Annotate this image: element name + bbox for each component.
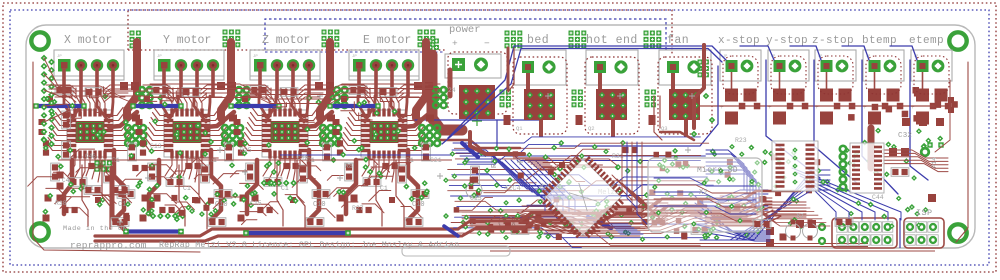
svg-text:JP: JP <box>157 55 162 59</box>
U4 thermal ring grid <box>419 125 425 131</box>
wire aux fat <box>702 45 706 58</box>
IC U1 stepper driver <box>67 110 113 157</box>
Z motor pad 3 <box>287 59 299 71</box>
U4 bottom fanout <box>362 157 369 176</box>
fan pad sq <box>667 61 679 73</box>
U4 connector feed wires <box>358 96 365 117</box>
U1 heavy snake <box>114 150 124 220</box>
E region vias <box>391 108 397 114</box>
capacitors Y top <box>152 86 170 95</box>
U2 thermal ring grid <box>222 125 228 131</box>
left band extra wires <box>46 85 76 90</box>
IC U4 stepper driver <box>361 110 407 157</box>
E motor pad 2 <box>370 59 382 71</box>
passive left of X7 <box>753 220 771 229</box>
bottom strip blue diagonals to header <box>700 190 830 240</box>
Z region wires <box>240 183 264 189</box>
U2 connector feed wires <box>161 96 168 117</box>
svg-text:ISP: ISP <box>916 208 933 218</box>
via block bed <box>505 31 510 36</box>
top-right passives <box>872 104 879 111</box>
wire blue segment 1 <box>126 229 181 233</box>
IC U6 right (pins) <box>772 141 818 191</box>
svg-text:+: + <box>863 104 867 111</box>
svg-text:+: + <box>815 104 819 111</box>
btemp resistor pads <box>868 89 881 102</box>
z-stop pad sq <box>821 60 833 72</box>
btemp pad sq <box>869 60 881 72</box>
svg-text:C44: C44 <box>872 194 884 201</box>
fan wires <box>671 73 675 89</box>
svg-text:RepRap Melzi V2.0 Licence: GP: RepRap Melzi V2.0 Licence: GPL Design: J… <box>159 240 459 250</box>
wire central heavy bus B <box>462 206 706 236</box>
U1 connector feed wires <box>64 96 71 117</box>
U5 escape wires <box>540 169 556 171</box>
svg-text:+: + <box>452 38 458 49</box>
wire blue stop nets <box>448 46 726 138</box>
fat blue diagonal segs <box>462 143 478 157</box>
x-stop resistor pads <box>725 89 738 102</box>
central red fill bundle <box>522 200 702 212</box>
hot end wires <box>598 73 602 89</box>
connector z-stop <box>815 50 856 81</box>
right header fan-in (blue) <box>812 188 836 220</box>
btemp pad round <box>884 60 897 73</box>
z-stop resistor pads <box>820 89 833 102</box>
svg-text:R23: R23 <box>735 137 747 144</box>
U1 bottom fanout <box>68 157 75 176</box>
fan gate via block <box>645 90 650 95</box>
U3 fanout wires <box>252 108 267 116</box>
svg-text:X7: X7 <box>796 213 804 220</box>
via row bottom-left 2 <box>261 180 268 187</box>
right extra wires <box>720 196 810 208</box>
U2 bottom fanout <box>165 157 172 176</box>
Z motor pad 1 (square) <box>254 59 267 72</box>
bottom edge connector outline <box>402 246 510 256</box>
connector X7 crystal <box>786 224 801 239</box>
via block E <box>418 30 423 35</box>
x-stop pad sq <box>726 60 738 72</box>
Y motor pad 1 (square) <box>158 59 171 72</box>
etemp pad round <box>932 60 945 73</box>
svg-text:−: − <box>484 38 490 49</box>
z-stop wire down <box>826 72 828 92</box>
svg-text:X motor: X motor <box>64 34 112 47</box>
U3 supply wire (blue) <box>229 104 279 108</box>
X region vias <box>69 103 75 109</box>
U1 supply wire (blue) <box>34 104 84 108</box>
U4 fanout wires <box>351 108 366 116</box>
svg-text:JP: JP <box>253 55 258 59</box>
right mesh wires <box>706 150 744 190</box>
connector fan terminal <box>659 50 711 85</box>
connector bed terminal <box>514 50 566 85</box>
svg-text:R38: R38 <box>55 200 67 207</box>
Y region vias <box>162 101 168 107</box>
etemp resistor pads <box>916 89 929 102</box>
via block hotend <box>569 31 574 36</box>
svg-text:C4: C4 <box>62 177 70 184</box>
left edge wires <box>44 58 70 92</box>
bottom strip mid extra <box>470 218 640 224</box>
via ring column right <box>840 146 846 152</box>
E motor pad 4 <box>402 59 414 71</box>
U2 fanout wires <box>154 108 169 116</box>
power pad - <box>474 58 488 72</box>
capacitor C5 power (big pad) <box>459 85 495 119</box>
svg-text:+: + <box>911 104 915 111</box>
via block Y <box>223 30 228 35</box>
bed pad sq <box>522 61 534 73</box>
bed wires <box>526 73 530 89</box>
connector x-stop <box>720 50 761 81</box>
E motor pad 1 (square) <box>353 59 366 72</box>
top-right pad rows <box>902 118 910 126</box>
svg-text:E motor: E motor <box>363 34 411 47</box>
aux corridor vias <box>691 131 698 138</box>
hot end keepout dotted <box>585 57 639 134</box>
top-right wires <box>935 80 950 152</box>
Y region wires <box>170 171 185 178</box>
svg-text:power: power <box>449 24 481 36</box>
svg-text:Z motor: Z motor <box>262 34 310 47</box>
y-stop keepout dotted <box>771 56 806 94</box>
connector X motor (4-pin) <box>54 50 124 80</box>
bed keepout dotted <box>513 57 567 134</box>
Y motor wires down <box>162 68 166 98</box>
passives E cluster <box>345 163 354 181</box>
X region wires <box>71 149 95 158</box>
power region wires <box>415 119 540 121</box>
right extra vias <box>712 151 718 157</box>
connector E motor (4-pin) <box>349 50 419 80</box>
connector header (2x3) <box>904 218 944 248</box>
X motor pad 4 <box>107 59 119 71</box>
U1 thermal ring grid <box>125 125 131 131</box>
wire Y feed (fat) <box>221 42 231 118</box>
svg-text:X2: X2 <box>699 189 708 197</box>
wire left edge vertical <box>33 62 200 252</box>
wire bottom thin traces <box>205 243 868 245</box>
gray plus marks <box>145 175 151 181</box>
svg-text:C32: C32 <box>898 132 912 140</box>
IC U7 right upper (pins) <box>850 143 884 193</box>
Micro SD inner traces <box>654 178 756 186</box>
left bottom extra pads <box>179 210 185 216</box>
mesh horizontal nets <box>453 137 700 143</box>
svg-text:Q2: Q2 <box>588 125 595 132</box>
etemp keepout dotted <box>914 56 949 94</box>
crystal circles mid <box>499 215 513 229</box>
hot end pad sq <box>594 61 606 73</box>
E motor pad 3 <box>386 59 398 71</box>
svg-text:+: + <box>768 104 772 111</box>
E motor wires down <box>357 68 361 98</box>
X motor pad 2 <box>75 59 87 71</box>
right fat vertical <box>868 128 875 168</box>
connector Y motor (4-pin) <box>154 50 224 80</box>
svg-text:JP: JP <box>352 55 357 59</box>
y-stop wire down <box>779 72 781 92</box>
svg-text:reprappro.com: reprappro.com <box>70 240 147 251</box>
wire bus bottom 2 <box>280 154 452 156</box>
passives Y cluster <box>148 163 157 181</box>
svg-text:etemp: etemp <box>909 35 944 47</box>
svg-text:C18: C18 <box>297 155 309 162</box>
wire Z feed (fat) <box>320 42 330 118</box>
central mesh extra diagonal <box>452 150 565 186</box>
capacitors Z top <box>250 86 268 95</box>
power cap outlet fat <box>470 132 524 154</box>
wire fat snake X <box>112 168 126 231</box>
wire bottom bus fat lower <box>95 236 460 241</box>
U3 heavy snake <box>309 150 319 220</box>
X motor pad 3 <box>91 59 103 71</box>
connector Z motor (4-pin) <box>250 50 320 80</box>
mounting hole bottom-left <box>31 223 48 240</box>
power fat wire <box>432 55 462 130</box>
Z region vias <box>266 180 272 186</box>
transistor Q3 fan <box>669 89 700 120</box>
svg-text:Q1: Q1 <box>516 125 523 132</box>
svg-text:y-stop: y-stop <box>766 35 808 47</box>
capacitors E top <box>349 86 367 95</box>
passives Z cluster <box>246 163 255 181</box>
svg-text:C13: C13 <box>150 143 162 150</box>
mounting hole top-left <box>31 32 48 49</box>
mounting hole top-right <box>949 32 966 49</box>
etemp wire down <box>922 72 924 92</box>
svg-text:hot end: hot end <box>586 34 638 47</box>
blue diagonals lower-right <box>695 196 770 231</box>
mesh pads <box>528 221 534 227</box>
central extra pads <box>626 207 632 213</box>
U2 supply wire (blue) <box>131 104 181 108</box>
wire right heavy bus <box>706 191 800 199</box>
mesh short nets <box>477 174 507 188</box>
svg-text:Y motor: Y motor <box>163 34 211 47</box>
fan corridor verticals <box>654 96 662 140</box>
svg-text:C15: C15 <box>470 195 482 202</box>
wire right edge vertical <box>956 62 968 242</box>
svg-text:JP: JP <box>57 55 62 59</box>
via column left A <box>41 55 48 62</box>
inter-connector thin traces band <box>150 84 440 90</box>
svg-text:Micro SD: Micro SD <box>697 166 738 175</box>
svg-text:btemp: btemp <box>862 35 897 47</box>
transistor Q1 bed <box>524 89 555 120</box>
via block power L <box>428 39 433 44</box>
left edge passives <box>62 111 71 129</box>
wire bottom bus fat upper <box>95 229 458 236</box>
Y motor pad 3 <box>191 59 203 71</box>
btemp keepout dotted <box>866 56 901 94</box>
connector etemp <box>911 50 952 81</box>
svg-text:+: + <box>720 104 724 111</box>
right red fill bundle <box>712 202 806 210</box>
U4 heavy snake <box>408 150 418 220</box>
bed pad round <box>542 60 555 73</box>
U3 thermal ring grid <box>320 125 326 131</box>
Z motor pad 2 <box>271 59 283 71</box>
mesh vias <box>662 157 668 163</box>
wire stop bus <box>700 105 945 107</box>
right extra pads <box>734 204 740 210</box>
connector Micro SD holder <box>648 158 762 232</box>
SD left corridor verticals <box>622 142 632 200</box>
x-stop wire down <box>731 72 733 92</box>
wire X feed (fat) <box>127 42 137 118</box>
svg-text:x-stop: x-stop <box>718 35 760 47</box>
connector ISP header (2x5) <box>832 218 897 248</box>
U3 bottom fanout <box>263 157 270 176</box>
board outline <box>26 25 975 248</box>
bottom strip extra <box>462 208 758 220</box>
svg-text:C10: C10 <box>412 201 425 209</box>
svg-text:C21: C21 <box>430 157 442 164</box>
wire central heavy bus A <box>458 199 704 229</box>
U3 connector feed wires <box>259 96 266 117</box>
capacitors X top <box>55 86 73 95</box>
central extra vias <box>488 208 494 214</box>
wire between headers <box>899 218 901 248</box>
right vias base <box>855 200 861 206</box>
passives X cluster <box>51 163 60 181</box>
via column left B <box>48 59 55 66</box>
y-stop pad sq <box>774 60 786 72</box>
x-stop keepout dotted <box>723 56 758 94</box>
via block X <box>130 31 135 36</box>
svg-text:P14: P14 <box>931 157 938 168</box>
fan keepout dotted <box>658 57 712 134</box>
via block aux <box>698 60 703 65</box>
IC U3 stepper driver <box>262 110 308 157</box>
mesh diagonals near U5 <box>505 160 545 214</box>
hot end gate via block <box>572 90 577 95</box>
connector btemp <box>863 50 904 81</box>
connector power terminal <box>445 54 501 78</box>
wire bus bottom 1 <box>58 159 452 161</box>
btemp wire down <box>874 72 876 92</box>
svg-text:C10: C10 <box>313 201 326 209</box>
svg-text:R8: R8 <box>345 163 353 170</box>
fan pad round <box>687 60 700 73</box>
svg-text:42C4: 42C4 <box>504 185 521 193</box>
X motor pad 1 (square) <box>58 59 71 72</box>
aux green pads right <box>927 142 932 147</box>
U1 fanout wires <box>57 108 72 116</box>
connector keepout outline (red dotted) <box>128 10 672 55</box>
transistor Q2 hot end <box>596 89 627 120</box>
svg-text:C15: C15 <box>250 200 262 207</box>
svg-text:bed: bed <box>527 34 549 47</box>
svg-text:R27: R27 <box>352 205 364 212</box>
Z motor wires down <box>258 68 262 98</box>
IC U2 stepper driver <box>164 110 210 157</box>
connector keepout outline (blue dashed) <box>265 19 666 52</box>
via row bottom-left <box>150 213 157 220</box>
header left pads <box>819 224 825 230</box>
aux corridor fat wire <box>694 45 704 128</box>
y-stop resistor pads <box>773 89 786 102</box>
mesh passives <box>471 166 480 184</box>
connector hot end terminal <box>586 50 638 85</box>
E region wires <box>334 188 352 196</box>
svg-text:fan: fan <box>667 34 689 47</box>
right pads base <box>796 220 804 228</box>
mounting hole bottom-right <box>949 224 966 241</box>
z-stop keepout dotted <box>818 56 853 94</box>
gray circle footprint Q8 <box>466 182 482 198</box>
svg-text:C1: C1 <box>281 185 289 192</box>
svg-text:R25: R25 <box>240 147 252 154</box>
Z motor pad 4 <box>303 59 315 71</box>
connector y-stop <box>768 50 809 81</box>
bed gate via block <box>500 90 505 95</box>
svg-text:z-stop: z-stop <box>812 35 854 47</box>
via block Z <box>322 30 327 35</box>
y-stop pad round <box>789 60 802 73</box>
wire E feed (fat) <box>416 42 426 118</box>
left cluster C46 <box>95 161 100 166</box>
x-stop pad round <box>741 60 754 73</box>
svg-text:C1: C1 <box>380 185 388 192</box>
U2 heavy snake <box>211 150 221 220</box>
power keepout dotted <box>448 52 507 114</box>
IC U5 ATmega1284 (rotated 45) <box>536 150 630 244</box>
Y motor pad 4 <box>207 59 219 71</box>
wire blue segment 2 <box>246 231 348 235</box>
svg-text:C46: C46 <box>85 153 96 160</box>
etemp pad sq <box>917 60 929 72</box>
U4 supply wire (blue) <box>328 104 378 108</box>
via block fan <box>644 31 649 36</box>
hot end pad round <box>614 60 627 73</box>
svg-text:C1: C1 <box>183 185 191 192</box>
Y motor pad 2 <box>175 59 187 71</box>
X motor wires down <box>62 68 66 98</box>
z-stop pad round <box>836 60 849 73</box>
power pad + <box>452 58 465 71</box>
